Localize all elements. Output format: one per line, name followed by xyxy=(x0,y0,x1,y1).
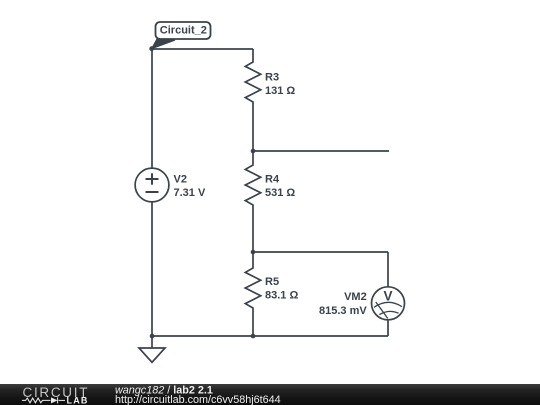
svg-text:815.3 mV: 815.3 mV xyxy=(319,305,367,317)
svg-text:V2: V2 xyxy=(174,173,187,185)
svg-text:R5: R5 xyxy=(265,276,279,288)
svg-text:131 Ω: 131 Ω xyxy=(265,85,295,97)
svg-text:VM2: VM2 xyxy=(344,291,367,303)
svg-text:R3: R3 xyxy=(265,72,279,84)
svg-text:http://circuitlab.com/c6vv58hj: http://circuitlab.com/c6vv58hj6t644 xyxy=(115,394,281,405)
svg-text:V: V xyxy=(383,289,392,304)
svg-text:7.31 V: 7.31 V xyxy=(174,187,206,199)
svg-text:83.1 Ω: 83.1 Ω xyxy=(265,290,298,302)
svg-text:R4: R4 xyxy=(265,174,280,186)
svg-text:Circuit_2: Circuit_2 xyxy=(160,25,207,37)
svg-text:LAB: LAB xyxy=(67,396,89,405)
svg-text:531 Ω: 531 Ω xyxy=(265,187,295,199)
